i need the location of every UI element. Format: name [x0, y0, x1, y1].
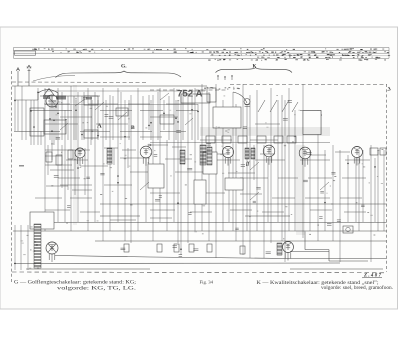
svg-text:volgorde: KG, TG, LG.: volgorde: KG, TG, LG. [57, 287, 136, 292]
svg-text:B: B [131, 125, 135, 131]
svg-text:volgorde: snel, breed, gramofo: volgorde: snel, breed, gramofoon. [321, 286, 393, 291]
svg-text:G.: G. [121, 64, 127, 70]
svg-text:G — Golflengteschakelaar: gete: G — Golflengteschakelaar: getekende stan… [14, 281, 136, 286]
svg-text:Fig. 34: Fig. 34 [200, 280, 214, 285]
